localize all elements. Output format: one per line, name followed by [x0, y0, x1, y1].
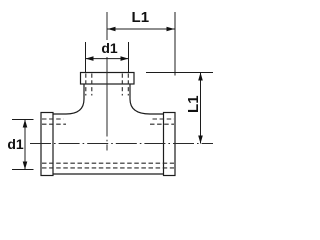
right socket band — [164, 113, 176, 176]
dimension d1 left: bottom extension line — [12, 169, 34, 171]
branch hidden bore line left (through bore) — [91, 74, 93, 96]
svg-text:L1: L1 — [132, 9, 150, 26]
dimension d1 top: right arrow — [121, 56, 129, 61]
dimension L1 right: bottom arrow — [198, 136, 203, 144]
svg-text:d1: d1 — [7, 136, 24, 152]
hidden bore line top-right (socket bore) — [153, 118, 175, 120]
top socket band — [81, 73, 135, 85]
dimension d1 top: right extension line — [128, 42, 130, 72]
dimension d1 top: left arrow — [86, 56, 94, 61]
svg-text:d1: d1 — [101, 40, 118, 56]
dimension L1 top: right extension line — [174, 12, 176, 76]
dimension d1 top: dimension line — [86, 58, 129, 60]
dimension d1 left: top extension line — [12, 119, 34, 121]
dimension L1 top: dimension line — [108, 28, 175, 30]
svg-text:L1: L1 — [185, 95, 202, 113]
dimension d1 left: dimension line — [24, 120, 26, 170]
dimension L1 right: dimension line — [200, 73, 202, 144]
branch hidden bore line right (through bore) — [121, 74, 123, 96]
tee body outline: pipe top edge + branch fillets — [53, 84, 164, 114]
vertical centerline / L1 left extension — [106, 12, 108, 40]
hidden bore line top-left (through bore) — [42, 123, 66, 125]
dimension L1 top: left arrow — [108, 27, 116, 32]
dimension L1 right: top arrow — [198, 73, 203, 81]
dimension L1 top: right arrow — [167, 27, 175, 32]
dimension L1 right: top extension line (branch face) — [146, 72, 213, 74]
branch hidden bore line right (socket bore) — [127, 74, 129, 96]
hidden bore line bottom (socket bore) — [42, 167, 174, 169]
horizontal centerline — [30, 143, 213, 145]
dimension d1 top: left extension line — [85, 42, 87, 72]
hidden bore line top-left (socket bore) — [42, 118, 64, 120]
pipe bottom edge — [53, 173, 164, 175]
dimension d1 left: top arrow — [23, 120, 28, 128]
branch hidden bore line left (socket bore) — [85, 74, 87, 96]
left socket band — [41, 113, 53, 176]
hidden bore line top-right (through bore) — [150, 123, 174, 125]
hidden bore line bottom (through bore) — [42, 162, 174, 164]
dimension d1 left: bottom arrow — [23, 162, 28, 170]
